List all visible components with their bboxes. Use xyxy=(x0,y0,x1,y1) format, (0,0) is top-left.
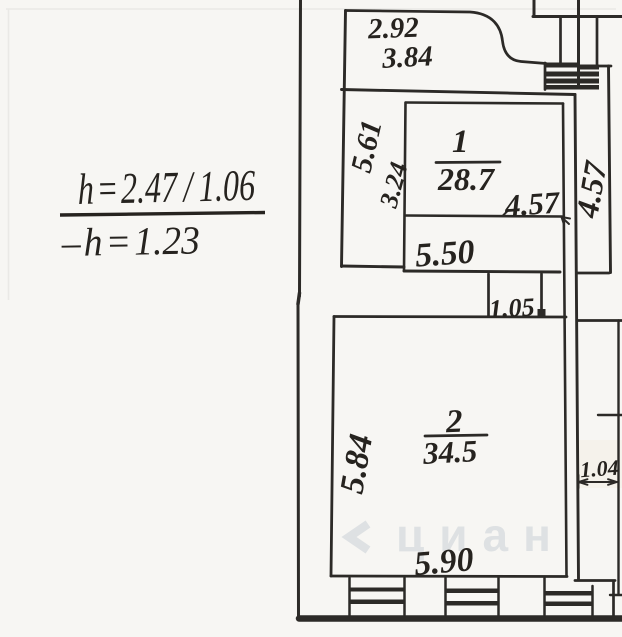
svg-text:4.57: 4.57 xyxy=(503,184,562,223)
fraction bar room2 xyxy=(425,435,487,436)
wall room1 outer right B long xyxy=(575,95,579,580)
wall far right C xyxy=(609,66,611,273)
wall room1 inner top xyxy=(406,103,563,104)
window3 band b xyxy=(545,602,593,607)
window1 left edge xyxy=(348,578,351,615)
svg-text:1: 1 xyxy=(452,124,469,160)
wall room1 block outer bottom xyxy=(404,271,560,272)
watermark cian icon xyxy=(349,524,368,550)
svg-text:1.04: 1.04 xyxy=(579,455,619,483)
wall upper/left of room block xyxy=(342,11,346,267)
arrow leader 4.57 xyxy=(562,217,571,225)
window2 band a xyxy=(446,589,499,594)
wall vert 613 xyxy=(612,582,615,619)
window1 band b xyxy=(350,600,405,605)
wall stub top a xyxy=(533,0,536,17)
faint warm patch near 1.04 xyxy=(578,440,622,488)
svg-text:1.05: 1.05 xyxy=(488,292,535,323)
svg-text:28.7: 28.7 xyxy=(437,161,496,197)
window2 left edge xyxy=(444,578,447,615)
wall lobby divider xyxy=(404,103,406,272)
window1 band a xyxy=(350,588,405,592)
faint scan frame left xyxy=(8,9,10,300)
wall door jamb left 1.05 xyxy=(487,274,490,316)
arrow hook 4.57 left xyxy=(503,210,509,216)
wall door jamb right 1.05 xyxy=(540,274,543,316)
fraction bar room1 xyxy=(436,161,500,164)
window1 right edge xyxy=(403,578,406,615)
wall cap right lower xyxy=(575,579,615,582)
junction blob 1.05 xyxy=(538,309,546,317)
wall room2 left xyxy=(331,317,334,577)
dim line 1.04 xyxy=(579,475,618,488)
window2 right edge xyxy=(497,578,500,615)
wall upper room top with curve xyxy=(346,11,547,64)
svg-text:h = 2.47 / 1.06: h = 2.47 / 1.06 xyxy=(78,162,256,214)
tick mid right xyxy=(598,414,622,416)
wall left jog xyxy=(298,293,300,304)
wall bottom outer thick xyxy=(299,615,622,622)
note underline xyxy=(60,213,265,216)
window2 band b xyxy=(446,601,499,606)
wall lobby bottom xyxy=(342,266,405,267)
wall right room left D xyxy=(617,321,619,595)
hatch shaft edge xyxy=(544,63,547,90)
svg-text:34.5: 34.5 xyxy=(421,433,478,471)
svg-text:5.50: 5.50 xyxy=(414,234,476,275)
wall room2 top xyxy=(334,315,566,318)
wall right room top xyxy=(578,319,622,322)
wall room1 inner bottom xyxy=(406,216,562,217)
svg-text:– h = 1.23: – h = 1.23 xyxy=(60,218,200,265)
wall right of hatch xyxy=(599,65,611,68)
window3 right edge xyxy=(591,586,594,619)
wall cap under corridor xyxy=(577,272,609,275)
faint scan frame top xyxy=(6,8,616,10)
wall stub top b xyxy=(577,0,580,87)
wall stub c xyxy=(559,17,562,63)
window3 left edge xyxy=(543,578,546,615)
svg-text:3.84: 3.84 xyxy=(380,40,433,75)
tick bottom right xyxy=(610,594,622,596)
wall room2 bottom xyxy=(331,575,567,578)
svg-text:5.90: 5.90 xyxy=(413,541,475,583)
wall room1 inner right A long xyxy=(563,104,567,576)
wall left outer xyxy=(300,0,301,296)
wall room1 outer top xyxy=(342,90,576,95)
window3 band a xyxy=(545,591,593,596)
hatch shaft bands xyxy=(350,63,600,607)
wall top right horizontal xyxy=(533,15,622,18)
wall stub d xyxy=(596,17,599,64)
